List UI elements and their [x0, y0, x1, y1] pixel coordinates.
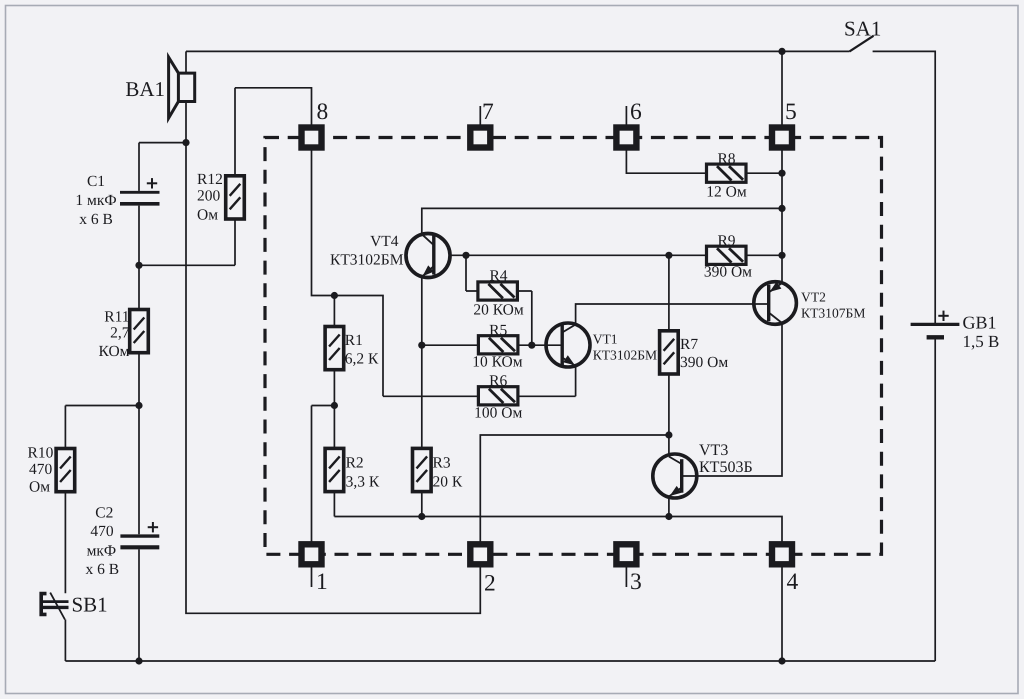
svg-text:SB1: SB1	[72, 593, 108, 617]
svg-text:1: 1	[316, 569, 328, 595]
svg-text:470: 470	[90, 523, 114, 540]
node R1 top	[331, 292, 338, 299]
svg-text:R11: R11	[104, 309, 129, 326]
svg-text:VT3: VT3	[699, 442, 728, 459]
node bottom rail left	[135, 657, 142, 664]
svg-text:КТ503Б: КТ503Б	[699, 459, 753, 476]
svg-text:R8: R8	[717, 151, 735, 168]
IC dashed outline DA1	[265, 138, 882, 555]
pin 8 square	[302, 128, 322, 148]
resistor R3	[413, 448, 432, 491]
svg-text:6,2 К: 6,2 К	[345, 351, 379, 368]
node C1/R12	[135, 262, 142, 269]
node VT4 emitter/R5	[418, 342, 425, 349]
resistor R4	[478, 282, 518, 300]
svg-text:R1: R1	[345, 332, 363, 349]
wire R1-R2 chain vertical	[333, 296, 335, 517]
svg-text:R5: R5	[489, 322, 507, 339]
node BA1/C1	[182, 139, 189, 146]
wire C1 bottom through R11 to C2 top	[138, 206, 140, 535]
svg-text:100 Ом: 100 Ом	[474, 405, 522, 422]
node R8/pin5 line	[778, 170, 785, 177]
node R7 bottom/pin2	[665, 431, 672, 438]
svg-text:VT2: VT2	[801, 290, 826, 305]
svg-text:6: 6	[630, 99, 642, 125]
wire down to C1 top plate	[138, 143, 140, 191]
node R9/pin5 line	[778, 252, 785, 259]
svg-text:КТ3107БМ: КТ3107БМ	[801, 306, 865, 321]
wire VT3 emitter to rail	[668, 497, 670, 517]
wire pin 8 down and over to R6	[312, 148, 384, 397]
svg-text:C2: C2	[95, 505, 113, 522]
wire R4 right lead down	[531, 291, 533, 345]
resistor R6	[478, 387, 518, 405]
resistor R8	[707, 164, 747, 182]
wire pin 1 branch	[312, 406, 335, 545]
svg-text:SA1: SA1	[844, 17, 881, 41]
pin 1 stub	[311, 567, 313, 588]
node R11/R10	[135, 402, 142, 409]
resistor R9	[707, 246, 747, 264]
wire VT2 collector to VT3 base	[682, 323, 782, 477]
resistor R12	[226, 176, 245, 219]
resistor R2	[325, 448, 344, 491]
node SA1/pin5	[778, 48, 785, 55]
svg-text:мкФ: мкФ	[87, 543, 117, 560]
speaker BA1	[169, 57, 195, 118]
svg-text:Ом: Ом	[197, 207, 218, 224]
pin 1 square	[302, 544, 322, 564]
wire pin 6 through R8 to pin5 line	[626, 148, 782, 174]
wire pin 5 down to VT2 emitter	[781, 148, 783, 284]
capacitor C2	[120, 536, 159, 547]
transistor VT4	[406, 234, 450, 278]
svg-text:C1: C1	[87, 173, 105, 190]
node R1/R2 pin1	[331, 402, 338, 409]
pin 6 stub	[625, 106, 627, 128]
pin 3 square	[616, 544, 636, 564]
wire GB1 - to bottom rail	[934, 339, 936, 661]
wire VT1 base lead	[532, 344, 562, 346]
plus sign C2	[148, 522, 158, 532]
pin 4 square	[772, 544, 792, 564]
wire bottom rail of IC interior to pin 4	[334, 517, 782, 545]
pin 7 square	[470, 128, 490, 148]
node R7 top	[665, 252, 672, 259]
capacitor C1	[120, 192, 160, 204]
svg-text:390 Ом: 390 Ом	[680, 354, 728, 371]
svg-text:2,7: 2,7	[110, 325, 130, 342]
wire SB1 bottom lead	[64, 620, 66, 662]
wire R4 row	[466, 255, 532, 291]
switch SA1 blade	[850, 36, 874, 52]
pin 7 stub	[479, 106, 481, 128]
svg-text:390 Ом: 390 Ом	[704, 264, 752, 281]
svg-text:3: 3	[630, 569, 642, 595]
resistor R5	[478, 336, 518, 354]
wire BA1 vertical down to pin-2 bottom route	[186, 51, 480, 613]
wire R6 row to VT1 emitter	[383, 366, 576, 397]
wire pin 4 to bottom rail	[781, 567, 783, 662]
svg-text:12 Ом: 12 Ом	[706, 184, 747, 201]
svg-text:КТ3102БМ: КТ3102БМ	[593, 348, 657, 363]
svg-text:R7: R7	[680, 336, 698, 353]
node R4 drop	[462, 252, 469, 259]
svg-text:470: 470	[29, 461, 53, 478]
wire VT4 base row through R9 to pin5 line	[450, 254, 782, 256]
wire R12 top to pin 8	[235, 88, 312, 128]
svg-text:3,3 К: 3,3 К	[346, 474, 380, 491]
svg-text:Ом: Ом	[29, 479, 50, 496]
wire R10 branch to SB1	[65, 406, 139, 594]
transistor VT2	[754, 282, 797, 325]
wire bottom rail	[65, 660, 935, 662]
transistor VT1	[546, 323, 590, 367]
svg-text:200: 200	[197, 188, 221, 205]
push button SB1	[41, 593, 68, 620]
wire pin 2 up to R7 bottom node	[480, 435, 669, 544]
wire R12 branch	[139, 88, 235, 265]
svg-text:R10: R10	[28, 445, 54, 462]
svg-text:R3: R3	[433, 455, 451, 472]
plus sign GB1	[938, 311, 948, 321]
wire C1 top branch to BA1 node	[139, 142, 186, 144]
battery GB1	[911, 324, 960, 337]
svg-text:BA1: BA1	[125, 77, 165, 101]
svg-text:R9: R9	[717, 233, 735, 250]
svg-text:2: 2	[484, 571, 496, 597]
svg-text:20 К: 20 К	[433, 474, 463, 491]
svg-text:х 6 В: х 6 В	[79, 211, 113, 228]
transistor VT3	[653, 454, 697, 498]
node bottom rail pin4	[778, 657, 785, 664]
wire VT4 emitter through R3 to rail	[421, 277, 423, 517]
resistor R1	[325, 327, 344, 370]
svg-text:GB1: GB1	[963, 313, 997, 333]
node VT1 base	[528, 342, 535, 349]
svg-text:8: 8	[317, 99, 329, 125]
svg-text:х 6 В: х 6 В	[86, 561, 120, 578]
svg-text:10 КОм: 10 КОм	[472, 354, 523, 371]
svg-text:20 КОм: 20 КОм	[473, 302, 524, 319]
wire C2 bottom to bottom rail	[138, 549, 140, 661]
wire VT1 collector to VT2 base	[576, 304, 769, 325]
svg-text:R12: R12	[197, 171, 223, 188]
svg-text:7: 7	[482, 99, 494, 125]
svg-text:R6: R6	[489, 373, 507, 390]
wire SA1 contact to GB1 +	[873, 51, 936, 323]
svg-text:1,5 В: 1,5 В	[963, 332, 1000, 351]
svg-text:VT1: VT1	[593, 332, 618, 347]
wire VT4 collector rail	[422, 208, 782, 234]
pin 6 square	[616, 128, 636, 148]
wire top rail from BA1 to SA1	[186, 50, 850, 52]
node VT4 collector rail	[778, 205, 785, 212]
svg-text:1 мкФ: 1 мкФ	[75, 192, 116, 209]
svg-text:КОм: КОм	[99, 343, 130, 360]
wire R5 row to VT1 base node	[422, 344, 532, 346]
svg-text:R4: R4	[489, 268, 507, 285]
plus sign C1	[147, 178, 157, 188]
svg-text:КТ3102БМ: КТ3102БМ	[330, 252, 404, 269]
pin 3 stub	[625, 567, 627, 588]
resistor R11	[130, 310, 149, 353]
svg-text:5: 5	[785, 99, 797, 125]
svg-text:R2: R2	[346, 455, 364, 472]
resistor R10	[56, 449, 75, 492]
pin 2 square	[470, 544, 490, 564]
resistor R7	[660, 331, 679, 374]
wire top rail to pin 5	[781, 51, 783, 127]
svg-text:4: 4	[787, 569, 799, 595]
pin 5 square	[772, 128, 792, 148]
node R3 bottom	[418, 513, 425, 520]
svg-text:VT4: VT4	[370, 233, 399, 250]
node VT3 emitter	[665, 513, 672, 520]
wire R7 chain down to VT3 collector	[668, 255, 670, 456]
